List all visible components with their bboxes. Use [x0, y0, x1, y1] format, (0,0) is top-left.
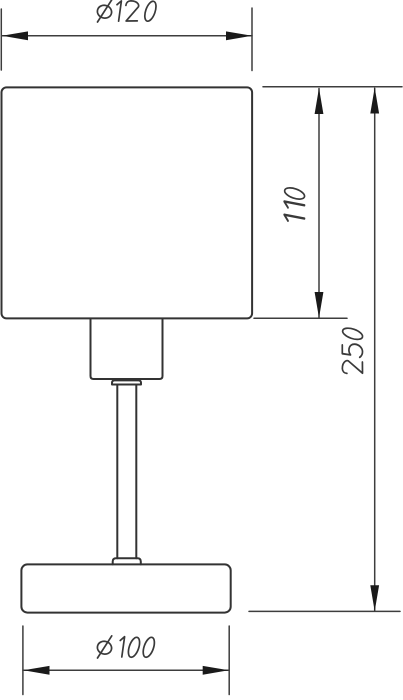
- extension line left of dia120: [0, 9, 2, 70]
- dimension line 110: [318, 89, 320, 318]
- label dia100: [96, 636, 157, 659]
- stem: [117, 385, 136, 559]
- arrow dia120 left: [2, 31, 28, 40]
- dimension line 250: [374, 88, 376, 611]
- extension line top right: [263, 86, 402, 88]
- extension line right of dia100: [228, 626, 230, 695]
- arrow dia120 right: [226, 31, 252, 40]
- arrow 250 bottom: [370, 585, 379, 611]
- extension line shade bottom: [254, 317, 347, 319]
- arrow dia100 right: [203, 666, 229, 675]
- lamp socket: [91, 320, 163, 380]
- label 250: [341, 326, 364, 373]
- label 110: [283, 186, 306, 221]
- arrow dia100 left: [24, 666, 50, 675]
- dimension line dia120: [2, 35, 252, 37]
- extension line base bottom: [249, 610, 400, 612]
- arrow 110 top: [315, 88, 324, 114]
- lamp base: [21, 564, 230, 612]
- dimension line dia100: [23, 669, 229, 671]
- lamp shade: [2, 87, 253, 318]
- socket collar: [112, 380, 141, 384]
- extension line right of dia120: [251, 8, 253, 71]
- arrow 250 top: [370, 88, 379, 114]
- extension line left of dia100: [22, 626, 24, 695]
- label dia120: [96, 0, 158, 23]
- foot collar: [113, 558, 141, 564]
- arrow 110 bottom: [315, 292, 324, 318]
